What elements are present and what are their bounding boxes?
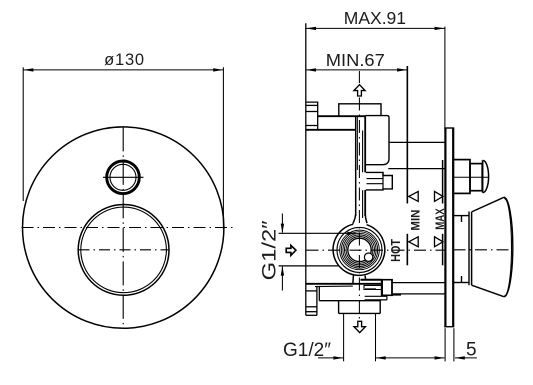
svg-text:MAX.91: MAX.91	[344, 8, 406, 28]
svg-text:5: 5	[466, 340, 477, 361]
extension line left	[343, 314, 345, 362]
MIN marker line	[406, 66, 408, 265]
mounting arm bottom edge	[306, 129, 356, 131]
diverter stem block 1	[453, 160, 470, 194]
extension line right (to plate)	[444, 27, 446, 128]
knob face outer arc	[504, 197, 513, 297]
side stub	[366, 172, 393, 190]
bottom flange foot	[306, 287, 320, 316]
side port bore top line	[279, 232, 352, 234]
MAX triangle top	[435, 191, 444, 201]
arrowhead to right ext (pointing left)	[376, 356, 386, 359]
knob neck	[453, 212, 469, 286]
bore circle	[348, 238, 371, 261]
diverter cap	[483, 160, 489, 192]
hollow up arrow	[354, 85, 365, 96]
G1/2 side dimension arrows	[281, 214, 283, 291]
bottom port inner rect	[364, 285, 381, 289]
horizontal centerline right view	[307, 249, 510, 251]
bottom nut	[365, 296, 387, 300]
extension line left	[22, 67, 24, 201]
diverter stem midline	[453, 176, 488, 178]
port leader arrowhead	[347, 232, 357, 235]
vertical centerline right view	[358, 71, 360, 320]
hollow down arrow	[354, 321, 365, 332]
arrowhead to plate right face (pointing left)	[455, 356, 465, 359]
top boss	[339, 104, 381, 116]
cartridge block	[365, 116, 389, 165]
knob cone bottom	[472, 285, 504, 297]
mounting arm top edge	[318, 115, 366, 117]
horizontal centerline main	[22, 227, 234, 229]
thread rings	[340, 230, 380, 270]
plate thickness extension lines	[445, 328, 454, 361]
escutcheon outer circle	[23, 127, 224, 328]
bottom pipe lines to plate	[393, 283, 445, 295]
outlet block	[319, 300, 380, 314]
arrowhead right	[435, 27, 445, 30]
knob face inner arc	[504, 199, 511, 296]
MAX triangle bottom	[435, 237, 444, 247]
temperature knob outer ring	[78, 205, 169, 296]
MAX marker line	[442, 160, 444, 265]
svg-text:HOT: HOT	[388, 239, 403, 262]
horizontal centerline temperature knob	[79, 249, 170, 251]
wall plate	[444, 128, 454, 327]
bottom arm top edge	[306, 283, 382, 285]
neck flare bottom left	[352, 276, 355, 284]
svg-text:G1/2″: G1/2″	[283, 340, 331, 361]
valve column walls	[356, 116, 366, 218]
svg-text:ø130: ø130	[104, 51, 145, 69]
cartridge tube bottom line	[388, 168, 445, 170]
inlet bulge outer wall	[333, 224, 385, 275]
bottom arm inner edge	[315, 285, 353, 288]
bore notch	[364, 253, 372, 261]
knob cone top	[472, 197, 504, 212]
arrowhead left	[306, 68, 316, 71]
MIN triangle bottom	[409, 237, 419, 247]
arrowhead right	[213, 68, 223, 71]
side port bore bottom line	[279, 265, 339, 267]
dimension MIN.67	[306, 69, 408, 71]
knob skirt	[471, 212, 473, 285]
pipe block	[381, 280, 393, 296]
dimension o130	[23, 67, 223, 229]
svg-text:MIN: MIN	[408, 210, 422, 231]
body back plate edge	[305, 23, 307, 315]
diverter knob inner ring	[110, 164, 136, 190]
vertical centerline main	[122, 127, 124, 328]
bottom pipe top thick line	[361, 279, 382, 281]
arrowhead left	[23, 68, 33, 71]
dimension MAX.91	[306, 27, 445, 128]
cartridge tube top line	[389, 141, 445, 143]
MIN triangle top	[409, 191, 419, 201]
arrowhead to left ext	[333, 356, 343, 359]
leader left	[318, 357, 343, 359]
diverter knob outer ring	[107, 161, 140, 194]
arrowhead to plate left face (pointing right)	[435, 356, 445, 359]
arrowhead right	[397, 68, 407, 71]
bulge inner surface	[337, 227, 382, 272]
extension line right	[375, 314, 377, 362]
top-left mounting lug	[306, 102, 318, 130]
leader middle	[376, 357, 445, 359]
bottom dimension G1/2	[318, 314, 477, 362]
extension line right	[222, 67, 224, 229]
temperature knob inner ring	[81, 207, 167, 293]
svg-text:G1/2″: G1/2″	[259, 220, 280, 280]
arrowhead left	[306, 27, 316, 30]
diverter stem block 2	[470, 164, 482, 191]
neck flare top	[353, 214, 356, 224]
diverter knob horizontal tick	[103, 176, 144, 178]
leader right	[455, 357, 477, 359]
neck flare bottom right	[364, 276, 366, 280]
dimension line	[23, 69, 223, 71]
svg-text:MIN.67: MIN.67	[326, 50, 385, 70]
flow arrow right (hollow)	[286, 245, 296, 255]
